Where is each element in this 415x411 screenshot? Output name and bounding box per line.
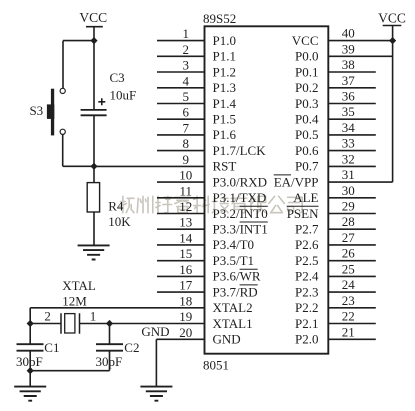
svg-text:P1.6: P1.6 (213, 127, 237, 142)
svg-text:P3.2/INT0: P3.2/INT0 (213, 206, 268, 221)
svg-text:33: 33 (342, 136, 355, 151)
svg-text:XTAL1: XTAL1 (213, 316, 253, 331)
svg-text:S3: S3 (29, 103, 43, 118)
svg-text:16: 16 (179, 262, 193, 277)
svg-text:10uF: 10uF (110, 88, 137, 103)
svg-text:P1.3: P1.3 (213, 80, 236, 95)
svg-text:P2.4: P2.4 (295, 269, 319, 284)
svg-text:6: 6 (183, 105, 190, 120)
svg-text:P1.7/LCK: P1.7/LCK (213, 143, 267, 158)
svg-text:34: 34 (342, 120, 356, 135)
svg-text:P2.0: P2.0 (295, 332, 318, 347)
svg-text:21: 21 (342, 324, 355, 339)
svg-text:3: 3 (183, 58, 190, 73)
svg-text:P2.5: P2.5 (295, 253, 318, 268)
svg-text:P0.4: P0.4 (295, 112, 319, 127)
svg-text:VCC: VCC (79, 10, 107, 25)
svg-text:P3.1/TXD: P3.1/TXD (213, 190, 267, 205)
svg-text:28: 28 (342, 214, 355, 229)
svg-text:PSEN: PSEN (287, 206, 319, 221)
svg-text:10K: 10K (108, 214, 131, 229)
svg-text:P1.2: P1.2 (213, 64, 236, 79)
svg-text:C3: C3 (110, 70, 125, 85)
svg-text:14: 14 (179, 230, 193, 245)
svg-text:17: 17 (179, 278, 193, 293)
svg-text:35: 35 (342, 104, 355, 119)
svg-text:15: 15 (179, 246, 192, 261)
svg-text:29: 29 (342, 199, 355, 214)
svg-text:8: 8 (183, 136, 190, 151)
svg-text:10: 10 (179, 168, 192, 183)
svg-text:XTAL2: XTAL2 (213, 300, 253, 315)
svg-text:XTAL: XTAL (62, 278, 96, 293)
svg-text:P2.2: P2.2 (295, 300, 318, 315)
svg-text:P0.5: P0.5 (295, 127, 318, 142)
svg-text:27: 27 (342, 230, 356, 245)
svg-text:P0.2: P0.2 (295, 80, 318, 95)
svg-text:4: 4 (183, 73, 190, 88)
svg-text:R4: R4 (108, 198, 124, 213)
svg-text:P0.0: P0.0 (295, 49, 318, 64)
svg-text:P0.1: P0.1 (295, 64, 318, 79)
svg-text:30: 30 (342, 183, 355, 198)
svg-text:40: 40 (342, 26, 355, 41)
svg-text:12M: 12M (62, 294, 87, 309)
svg-text:P3.3/INT1: P3.3/INT1 (213, 222, 268, 237)
svg-text:8051: 8051 (203, 358, 229, 373)
svg-text:37: 37 (342, 73, 356, 88)
svg-text:30pF: 30pF (96, 354, 123, 369)
svg-text:11: 11 (180, 183, 193, 198)
svg-text:26: 26 (342, 246, 356, 261)
svg-text:1: 1 (183, 26, 190, 41)
svg-text:36: 36 (342, 89, 356, 104)
svg-text:VCC: VCC (378, 10, 406, 25)
svg-text:P1.0: P1.0 (213, 33, 236, 48)
svg-text:RST: RST (213, 159, 237, 174)
svg-text:P1.4: P1.4 (213, 96, 237, 111)
svg-text:P3.6/WR: P3.6/WR (213, 269, 261, 284)
svg-text:2: 2 (44, 309, 51, 324)
svg-text:89S52: 89S52 (203, 11, 236, 26)
svg-text:C1: C1 (44, 340, 59, 355)
svg-text:P2.3: P2.3 (295, 284, 318, 299)
svg-text:30pF: 30pF (16, 354, 43, 369)
svg-text:12: 12 (179, 199, 192, 214)
svg-text:P1.1: P1.1 (213, 49, 236, 64)
svg-text:P0.6: P0.6 (295, 143, 319, 158)
svg-text:ALE: ALE (293, 190, 318, 205)
svg-text:P2.1: P2.1 (295, 316, 318, 331)
svg-text:GND: GND (141, 324, 169, 339)
svg-text:C2: C2 (124, 340, 139, 355)
svg-text:19: 19 (179, 309, 192, 324)
svg-text:P2.6: P2.6 (295, 237, 319, 252)
svg-text:P3.5/T1: P3.5/T1 (213, 253, 255, 268)
svg-text:9: 9 (183, 152, 190, 167)
svg-text:13: 13 (179, 215, 192, 230)
svg-text:P2.7: P2.7 (295, 222, 319, 237)
svg-text:EA/VPP: EA/VPP (274, 174, 319, 189)
svg-text:1: 1 (90, 309, 97, 324)
svg-text:25: 25 (342, 261, 355, 276)
svg-text:GND: GND (213, 332, 241, 347)
svg-text:P3.0/RXD: P3.0/RXD (213, 174, 268, 189)
svg-text:5: 5 (183, 89, 190, 104)
svg-text:32: 32 (342, 151, 355, 166)
svg-text:P1.5: P1.5 (213, 112, 236, 127)
svg-text:31: 31 (342, 167, 355, 182)
svg-text:P0.7: P0.7 (295, 159, 319, 174)
svg-text:39: 39 (342, 41, 355, 56)
svg-text:7: 7 (183, 120, 190, 135)
svg-text:VCC: VCC (292, 33, 319, 48)
svg-text:P3.7/RD: P3.7/RD (213, 284, 258, 299)
svg-text:P3.4/T0: P3.4/T0 (213, 237, 255, 252)
svg-text:23: 23 (342, 293, 355, 308)
svg-text:38: 38 (342, 57, 355, 72)
svg-text:24: 24 (342, 277, 356, 292)
svg-text:22: 22 (342, 309, 355, 324)
svg-text:18: 18 (179, 293, 192, 308)
svg-text:2: 2 (183, 42, 190, 57)
svg-text:20: 20 (179, 325, 192, 340)
svg-text:P0.3: P0.3 (295, 96, 318, 111)
